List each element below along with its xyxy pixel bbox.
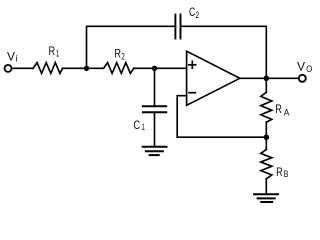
svg-text:R: R (276, 165, 283, 179)
svg-text:C: C (189, 5, 195, 19)
svg-text:2: 2 (196, 10, 200, 20)
svg-text:V: V (297, 59, 305, 73)
svg-text:1: 1 (142, 122, 145, 132)
svg-text:B: B (284, 169, 289, 179)
svg-text:i: i (16, 54, 18, 64)
svg-text:A: A (284, 107, 290, 117)
svg-text:C: C (134, 118, 141, 132)
svg-text:R: R (275, 102, 282, 116)
svg-text:1: 1 (56, 49, 59, 59)
svg-text:2: 2 (121, 52, 125, 62)
svg-text:R: R (49, 44, 56, 58)
svg-text:O: O (306, 64, 312, 74)
svg-text:V: V (7, 50, 15, 64)
